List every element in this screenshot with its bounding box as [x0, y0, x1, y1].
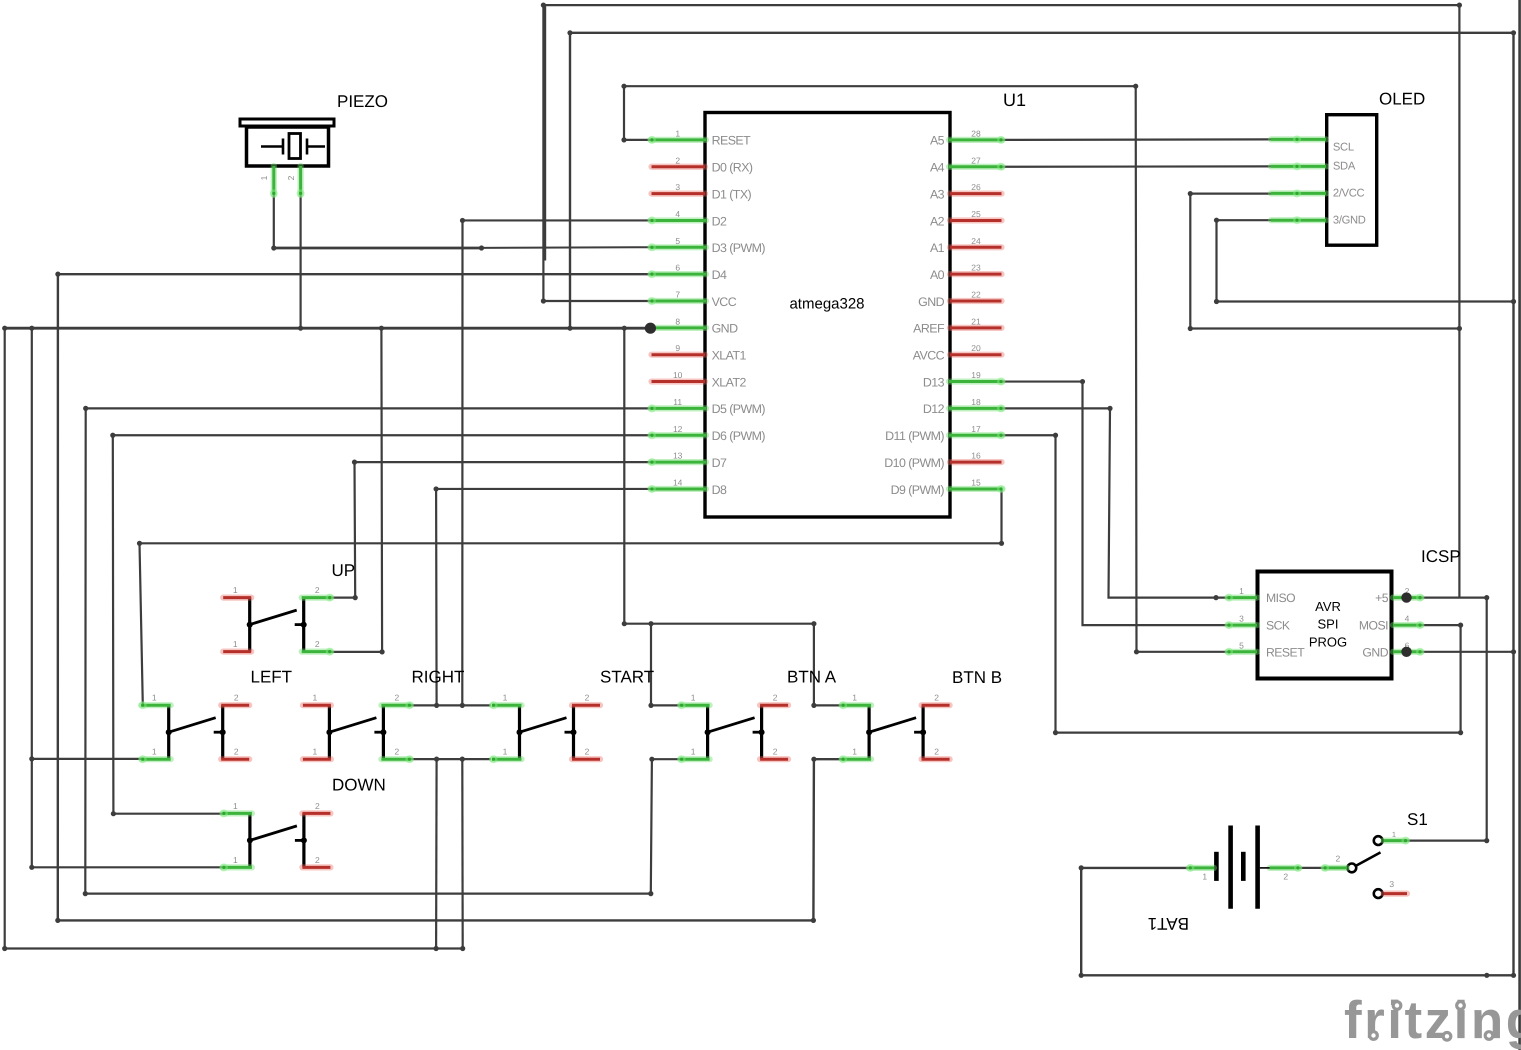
svg-text:20: 20 [971, 343, 981, 353]
svg-text:2: 2 [395, 693, 400, 703]
svg-text:D6 (PWM): D6 (PWM) [712, 429, 766, 443]
svg-text:S1: S1 [1407, 810, 1428, 829]
svg-text:+5: +5 [1375, 591, 1389, 605]
svg-text:SPI: SPI [1318, 617, 1339, 632]
svg-text:D12: D12 [923, 402, 945, 416]
svg-text:22: 22 [971, 290, 981, 300]
svg-text:1: 1 [259, 175, 269, 180]
svg-text:1: 1 [1392, 830, 1396, 839]
svg-text:1: 1 [1239, 586, 1244, 596]
svg-text:XLAT2: XLAT2 [712, 375, 747, 389]
svg-text:28: 28 [971, 128, 981, 138]
svg-text:PIEZO: PIEZO [337, 92, 388, 111]
svg-text:13: 13 [673, 451, 683, 461]
svg-text:16: 16 [971, 451, 981, 461]
svg-text:AVR: AVR [1315, 599, 1341, 614]
svg-text:1: 1 [152, 747, 157, 757]
svg-text:A5: A5 [930, 134, 945, 148]
svg-text:2: 2 [585, 747, 590, 757]
svg-text:3/GND: 3/GND [1333, 215, 1366, 227]
svg-text:1: 1 [675, 128, 680, 138]
svg-text:D8: D8 [712, 483, 727, 497]
svg-text:RESET: RESET [1266, 645, 1305, 659]
svg-text:17: 17 [971, 424, 981, 434]
svg-text:LEFT: LEFT [251, 668, 293, 687]
svg-text:D13: D13 [923, 375, 945, 389]
svg-text:A1: A1 [930, 241, 945, 255]
svg-text:OLED: OLED [1379, 90, 1425, 109]
svg-text:D4: D4 [712, 268, 727, 282]
svg-text:2: 2 [315, 801, 320, 811]
svg-text:14: 14 [673, 477, 683, 487]
svg-text:MOSI: MOSI [1359, 619, 1388, 633]
svg-text:4: 4 [1405, 614, 1410, 624]
svg-text:1: 1 [852, 693, 857, 703]
svg-text:23: 23 [971, 263, 981, 273]
svg-text:1: 1 [852, 747, 857, 757]
svg-text:SDA: SDA [1333, 160, 1356, 172]
svg-text:2: 2 [315, 855, 320, 865]
svg-text:1: 1 [233, 585, 238, 595]
svg-text:2: 2 [675, 155, 680, 165]
svg-text:AVCC: AVCC [913, 349, 945, 363]
svg-text:3: 3 [675, 182, 680, 192]
svg-text:1: 1 [233, 801, 238, 811]
svg-text:21: 21 [971, 316, 981, 326]
svg-text:5: 5 [1239, 640, 1244, 650]
svg-text:1: 1 [152, 693, 157, 703]
svg-text:A0: A0 [930, 268, 945, 282]
svg-text:6: 6 [675, 263, 680, 273]
svg-text:D3 (PWM): D3 (PWM) [712, 241, 766, 255]
svg-text:27: 27 [971, 155, 981, 165]
svg-text:2: 2 [234, 693, 239, 703]
svg-text:RESET: RESET [712, 134, 752, 148]
svg-text:10: 10 [673, 370, 683, 380]
svg-text:11: 11 [673, 397, 682, 407]
svg-text:XLAT1: XLAT1 [712, 349, 747, 363]
svg-text:SCK: SCK [1266, 619, 1290, 633]
svg-text:D5 (PWM): D5 (PWM) [712, 402, 766, 416]
svg-text:START: START [600, 668, 654, 687]
svg-text:2: 2 [315, 639, 320, 649]
svg-text:15: 15 [971, 477, 981, 487]
svg-text:fritzing: fritzing [1344, 991, 1521, 1050]
svg-text:2: 2 [1283, 872, 1288, 882]
svg-text:GND: GND [1362, 645, 1388, 659]
svg-text:D1 (TX): D1 (TX) [712, 187, 752, 201]
svg-text:D11 (PWM): D11 (PWM) [885, 429, 944, 443]
svg-text:24: 24 [971, 236, 981, 246]
svg-text:1: 1 [313, 747, 318, 757]
svg-text:RIGHT: RIGHT [412, 668, 465, 687]
svg-text:BTN B: BTN B [952, 668, 1002, 687]
svg-text:D10 (PWM): D10 (PWM) [884, 456, 944, 470]
svg-text:2: 2 [234, 747, 239, 757]
svg-text:1: 1 [503, 693, 508, 703]
svg-text:PROG: PROG [1309, 635, 1347, 650]
svg-text:D0 (RX): D0 (RX) [712, 161, 753, 175]
svg-text:19: 19 [971, 370, 981, 380]
svg-text:D2: D2 [712, 214, 727, 228]
svg-text:2: 2 [773, 693, 778, 703]
svg-text:AREF: AREF [913, 322, 945, 336]
svg-text:BTN A: BTN A [787, 668, 837, 687]
svg-text:D7: D7 [712, 456, 727, 470]
svg-text:ICSP: ICSP [1421, 547, 1461, 566]
svg-text:DOWN: DOWN [332, 776, 386, 795]
svg-text:1: 1 [1202, 872, 1207, 882]
svg-text:3: 3 [1239, 614, 1244, 624]
svg-text:GND: GND [712, 322, 738, 336]
svg-text:VCC: VCC [712, 295, 737, 309]
svg-text:5: 5 [675, 236, 680, 246]
svg-text:2: 2 [585, 693, 590, 703]
svg-text:UP: UP [332, 561, 356, 580]
svg-text:atmega328: atmega328 [789, 296, 864, 313]
svg-text:BAT1: BAT1 [1148, 914, 1189, 933]
svg-text:MISO: MISO [1266, 591, 1295, 605]
svg-text:SCL: SCL [1333, 142, 1354, 154]
svg-text:18: 18 [971, 397, 981, 407]
svg-text:2: 2 [934, 693, 939, 703]
svg-text:1: 1 [233, 639, 238, 649]
svg-text:25: 25 [971, 209, 981, 219]
svg-text:2: 2 [773, 747, 778, 757]
svg-text:26: 26 [971, 182, 981, 192]
svg-text:12: 12 [673, 424, 683, 434]
svg-text:1: 1 [503, 747, 508, 757]
svg-text:2: 2 [286, 175, 296, 180]
svg-text:1: 1 [691, 747, 696, 757]
svg-text:D9 (PWM): D9 (PWM) [891, 483, 945, 497]
svg-text:1: 1 [691, 693, 696, 703]
svg-text:GND: GND [918, 295, 944, 309]
svg-text:7: 7 [675, 290, 680, 300]
svg-text:4: 4 [675, 209, 680, 219]
svg-text:2: 2 [934, 747, 939, 757]
svg-text:U1: U1 [1003, 90, 1026, 110]
svg-text:9: 9 [675, 343, 680, 353]
svg-text:2/VCC: 2/VCC [1333, 187, 1365, 199]
svg-text:2: 2 [315, 585, 320, 595]
svg-text:A3: A3 [930, 187, 945, 201]
svg-text:2: 2 [1336, 854, 1341, 864]
svg-text:1: 1 [233, 855, 238, 865]
svg-text:1: 1 [313, 693, 318, 703]
svg-text:2: 2 [395, 747, 400, 757]
svg-text:A2: A2 [930, 214, 945, 228]
svg-text:3: 3 [1389, 879, 1394, 889]
svg-text:A4: A4 [930, 161, 945, 175]
svg-text:8: 8 [675, 316, 680, 326]
